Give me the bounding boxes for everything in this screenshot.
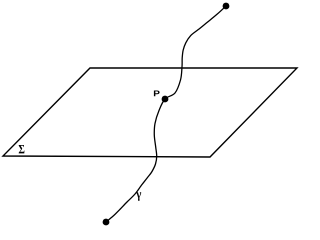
point P dot [162, 96, 169, 103]
label Sigma [19, 145, 25, 153]
endpoint dot bottom [103, 219, 110, 226]
endpoint dot top [223, 3, 230, 10]
label gamma [136, 192, 141, 201]
label P [154, 91, 160, 97]
curve gamma [106, 6, 226, 222]
plane Sigma (parallelogram) [3, 68, 297, 157]
